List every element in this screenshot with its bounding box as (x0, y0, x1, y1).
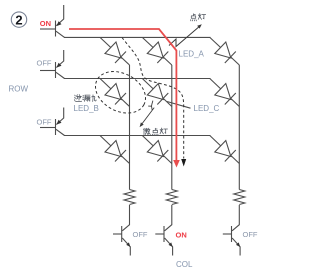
LED row3-col1 (100, 136, 130, 164)
svg-text:ON: ON (176, 231, 187, 240)
annotation 微点灯 arrow (dim LED_C) (140, 101, 155, 128)
wire row1 line (64, 36, 211, 38)
svg-text:OFF: OFF (37, 118, 52, 127)
annotation 点灯 arrow (lit LED_A) (169, 24, 202, 46)
transistor Q_col3 (NPN column driver) (223, 205, 240, 256)
LED row2-col3 (210, 79, 240, 107)
LED_B row2-col1 (100, 79, 130, 107)
dashed leakage current path (122, 38, 186, 167)
wire row3 line (64, 135, 211, 137)
svg-text:ON: ON (40, 19, 51, 28)
LED row3-col2 (142, 136, 172, 164)
svg-text:OFF: OFF (37, 59, 52, 68)
svg-text:OFF: OFF (243, 230, 258, 239)
dashed ellipse around LED_B (leakage highlight) (88, 63, 152, 121)
svg-text:2: 2 (15, 12, 22, 27)
transistor Q_col2 (NPN column driver) (155, 205, 172, 256)
resistor R2 (col2) (166, 190, 177, 205)
LED_C row2-col2 (142, 79, 172, 107)
wire column3 line (238, 65, 240, 190)
LED row3-col3 (210, 136, 240, 164)
annotation text 点灯 (191, 14, 206, 21)
svg-text:ROW: ROW (9, 85, 29, 94)
wire column1 line (129, 65, 131, 190)
LED row1-col1 (100, 37, 130, 65)
annotation text 微点灯 (143, 128, 167, 135)
leader line LED_C (167, 102, 191, 109)
svg-text:LED_B: LED_B (74, 104, 99, 113)
number badge 2 (11, 12, 26, 27)
annotation text 逆漏れ (74, 95, 96, 102)
LED row1-col3 (210, 37, 240, 65)
transistor Q_row1 (PNP row driver) (40, 5, 65, 37)
svg-text:COL: COL (176, 260, 193, 269)
transistor Q_row2 (PNP row driver) (40, 50, 65, 79)
LED_A row1-col2 (142, 37, 172, 65)
wire row2 line (64, 78, 211, 80)
svg-text:OFF: OFF (133, 230, 148, 239)
resistor R3 (col3) (234, 190, 245, 205)
red current path (row1 -> LED_A -> col2) (69, 29, 180, 168)
resistor R1 (col1) (124, 190, 135, 205)
wire column2 line (171, 65, 173, 190)
svg-text:LED_A: LED_A (179, 50, 205, 59)
transistor Q_row3 (PNP row driver) (40, 108, 65, 136)
svg-text:LED_C: LED_C (194, 104, 220, 113)
transistor Q_col1 (NPN column driver) (113, 205, 130, 256)
